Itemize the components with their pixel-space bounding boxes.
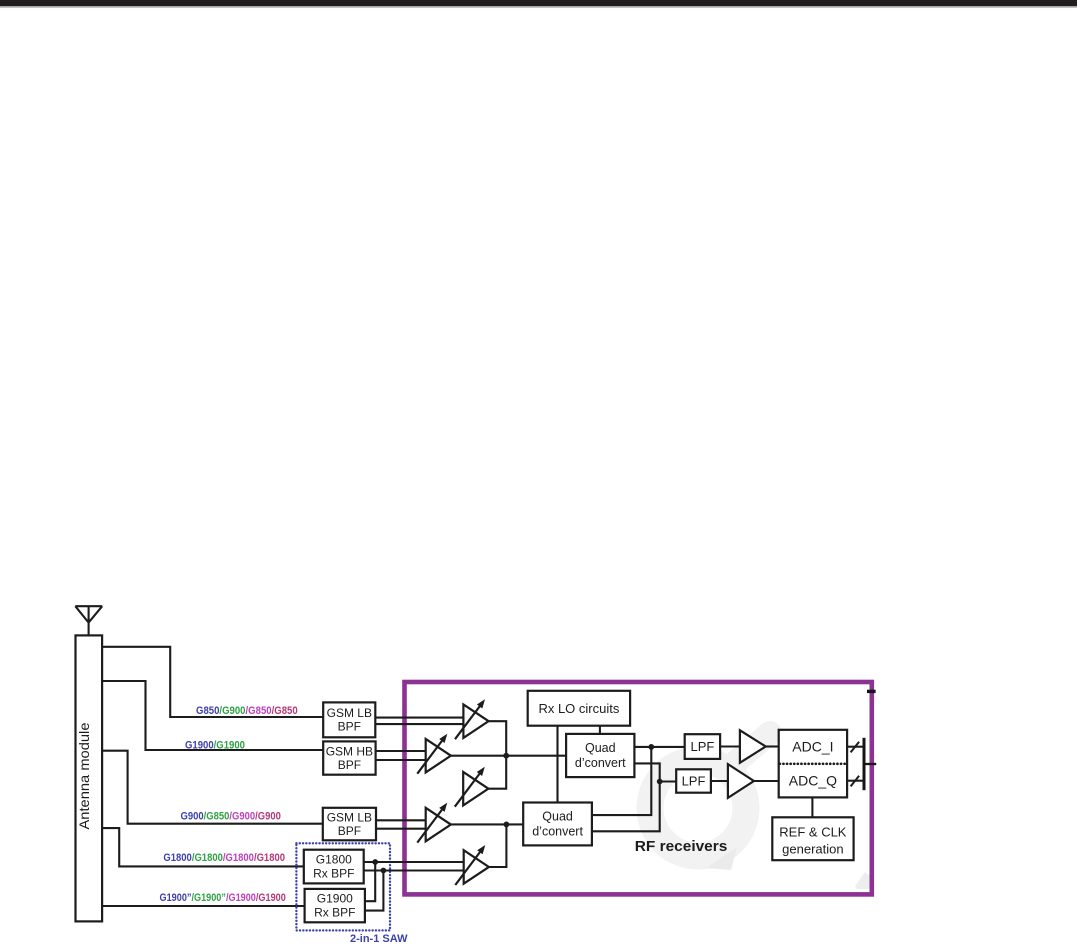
svg-text:Rx BPF: Rx BPF: [314, 906, 355, 920]
wire main to Quad2: [451, 823, 523, 825]
bus slash Q: [851, 776, 860, 787]
LPF box 1: [685, 734, 720, 759]
watermark arrowhead: [706, 847, 737, 870]
purple RF receivers box: [405, 682, 872, 894]
wire pair GSM LB1 to VGA A: [375, 718, 463, 725]
wire VGA E riser: [489, 824, 507, 867]
svg-text:LPF: LPF: [690, 739, 714, 754]
REF & CLK generation box: [772, 817, 853, 860]
wire bus out: [866, 763, 877, 765]
svg-text:RF receivers: RF receivers: [635, 838, 728, 855]
wire G1900 RxBPF upper stub: [365, 862, 375, 901]
junction dot I: [648, 744, 654, 750]
ADC box: [779, 730, 847, 798]
wire main to Quad1: [451, 755, 566, 757]
wire to LPF2: [660, 780, 677, 782]
G1900 Rx BPF box: [305, 889, 365, 922]
svg-text:G1800: G1800: [316, 852, 352, 866]
svg-text:BPF: BPF: [338, 824, 361, 838]
junction dot main2: [504, 822, 510, 828]
VGA D: [417, 803, 451, 843]
ADC dotted divider: [780, 762, 846, 765]
svg-text:G1900/G1900: G1900/G1900: [185, 739, 245, 751]
antenna: [75, 606, 102, 635]
svg-text:REF & CLK: REF & CLK: [779, 825, 847, 840]
svg-text:G1900: G1900: [317, 892, 353, 906]
svg-text:ADC_Q: ADC_Q: [789, 773, 837, 789]
amp F: [740, 730, 766, 763]
GSM LB BPF box 1: [323, 702, 375, 737]
antenna module box: [76, 635, 103, 921]
wire amp F to ADC: [766, 745, 779, 747]
wire ADC_I out: [847, 746, 863, 748]
wire amp G to ADC: [754, 780, 779, 782]
wire LPF2 to amp G: [711, 780, 728, 782]
svg-text:G850/G900/G850/G850: G850/G900/G850/G850: [196, 705, 298, 717]
GSM LB BPF box 2: [323, 808, 376, 841]
wire ADC to REF: [811, 797, 813, 817]
tick mark top right: [867, 690, 876, 693]
WATERMARK: [650, 733, 871, 889]
svg-text:GSM LB: GSM LB: [327, 810, 372, 824]
VGA C: [455, 767, 489, 807]
svg-text:d’convert: d’convert: [575, 756, 626, 770]
wire Quad2 upper out riser: [592, 747, 651, 815]
VGA A: [455, 699, 489, 739]
watermark ring: [650, 760, 746, 856]
wire pair GSM HB to VGA B: [376, 751, 426, 760]
junction dot SAW upper: [372, 859, 378, 865]
wire LO riser to Quad2: [556, 726, 558, 803]
svg-text:Rx LO circuits: Rx LO circuits: [538, 701, 619, 716]
svg-text:GSM LB: GSM LB: [327, 706, 372, 720]
wire pair GSM LB2 to VGA D: [376, 820, 426, 828]
amp G: [728, 764, 754, 798]
Rx LO circuits box: [528, 691, 630, 726]
bus bar: [863, 738, 866, 790]
watermark corner tail: [855, 872, 871, 889]
VGA B: [417, 734, 451, 774]
wire row5 G1900: [102, 905, 305, 907]
wire row4 G1800: [102, 828, 304, 866]
wire ADC_Q out: [847, 780, 863, 782]
LPF box 2: [676, 769, 711, 792]
svg-text:Antenna module: Antenna module: [76, 722, 92, 829]
top black bar: [0, 0, 1077, 6]
G1800 Rx BPF box: [304, 850, 364, 884]
svg-text:GSM HB: GSM HB: [326, 744, 373, 758]
svg-text:d’convert: d’convert: [532, 824, 583, 838]
wire G1900 RxBPF lower stub: [365, 871, 384, 911]
wire row2 G1900 HB: [102, 681, 323, 750]
wire Quad1 upper out to LPF1: [634, 746, 684, 748]
wire LO stub to Quad1: [599, 726, 601, 734]
wire row3 G900: [102, 751, 323, 824]
svg-text:BPF: BPF: [338, 719, 361, 733]
bus slash I: [851, 742, 860, 753]
svg-text:G1800/G1800/G1800/G1800: G1800/G1800/G1800/G1800: [163, 852, 285, 864]
junction dot SAW lower: [381, 868, 387, 874]
2-in-1 SAW dotted box: [296, 843, 390, 930]
svg-text:G900/G850/G900/G900: G900/G850/G900/G900: [181, 810, 281, 822]
svg-text:BPF: BPF: [338, 758, 361, 772]
junction dot Q: [657, 779, 663, 785]
wire LPF1 to amp F: [720, 745, 740, 747]
GSM HB BPF box: [323, 741, 375, 774]
svg-text:Rx BPF: Rx BPF: [313, 866, 354, 880]
svg-text:2-in-1 SAW: 2-in-1 SAW: [350, 933, 408, 945]
Quad d'convert box 1: [566, 734, 634, 777]
svg-text:G1900”/G1900”/G1900/G1900: G1900”/G1900”/G1900/G1900: [160, 892, 286, 904]
VGA E: [455, 845, 489, 885]
wire Quad1 lower out riser: [634, 763, 659, 781]
junction dot main1: [503, 753, 509, 759]
svg-text:ADC_I: ADC_I: [792, 738, 833, 754]
svg-text:Quad: Quad: [585, 741, 616, 755]
wire Quad2 lower out riser: [592, 782, 660, 832]
wire VGA A/C riser: [488, 721, 506, 789]
svg-text:Quad: Quad: [542, 809, 573, 823]
wire pair SAW to VGA E: [364, 862, 464, 871]
svg-text:generation: generation: [782, 842, 843, 857]
svg-text:LPF: LPF: [682, 774, 706, 789]
watermark swoosh tail: [731, 733, 770, 766]
Quad d'convert box 2: [523, 803, 592, 846]
wire row1 G850: [102, 647, 323, 717]
